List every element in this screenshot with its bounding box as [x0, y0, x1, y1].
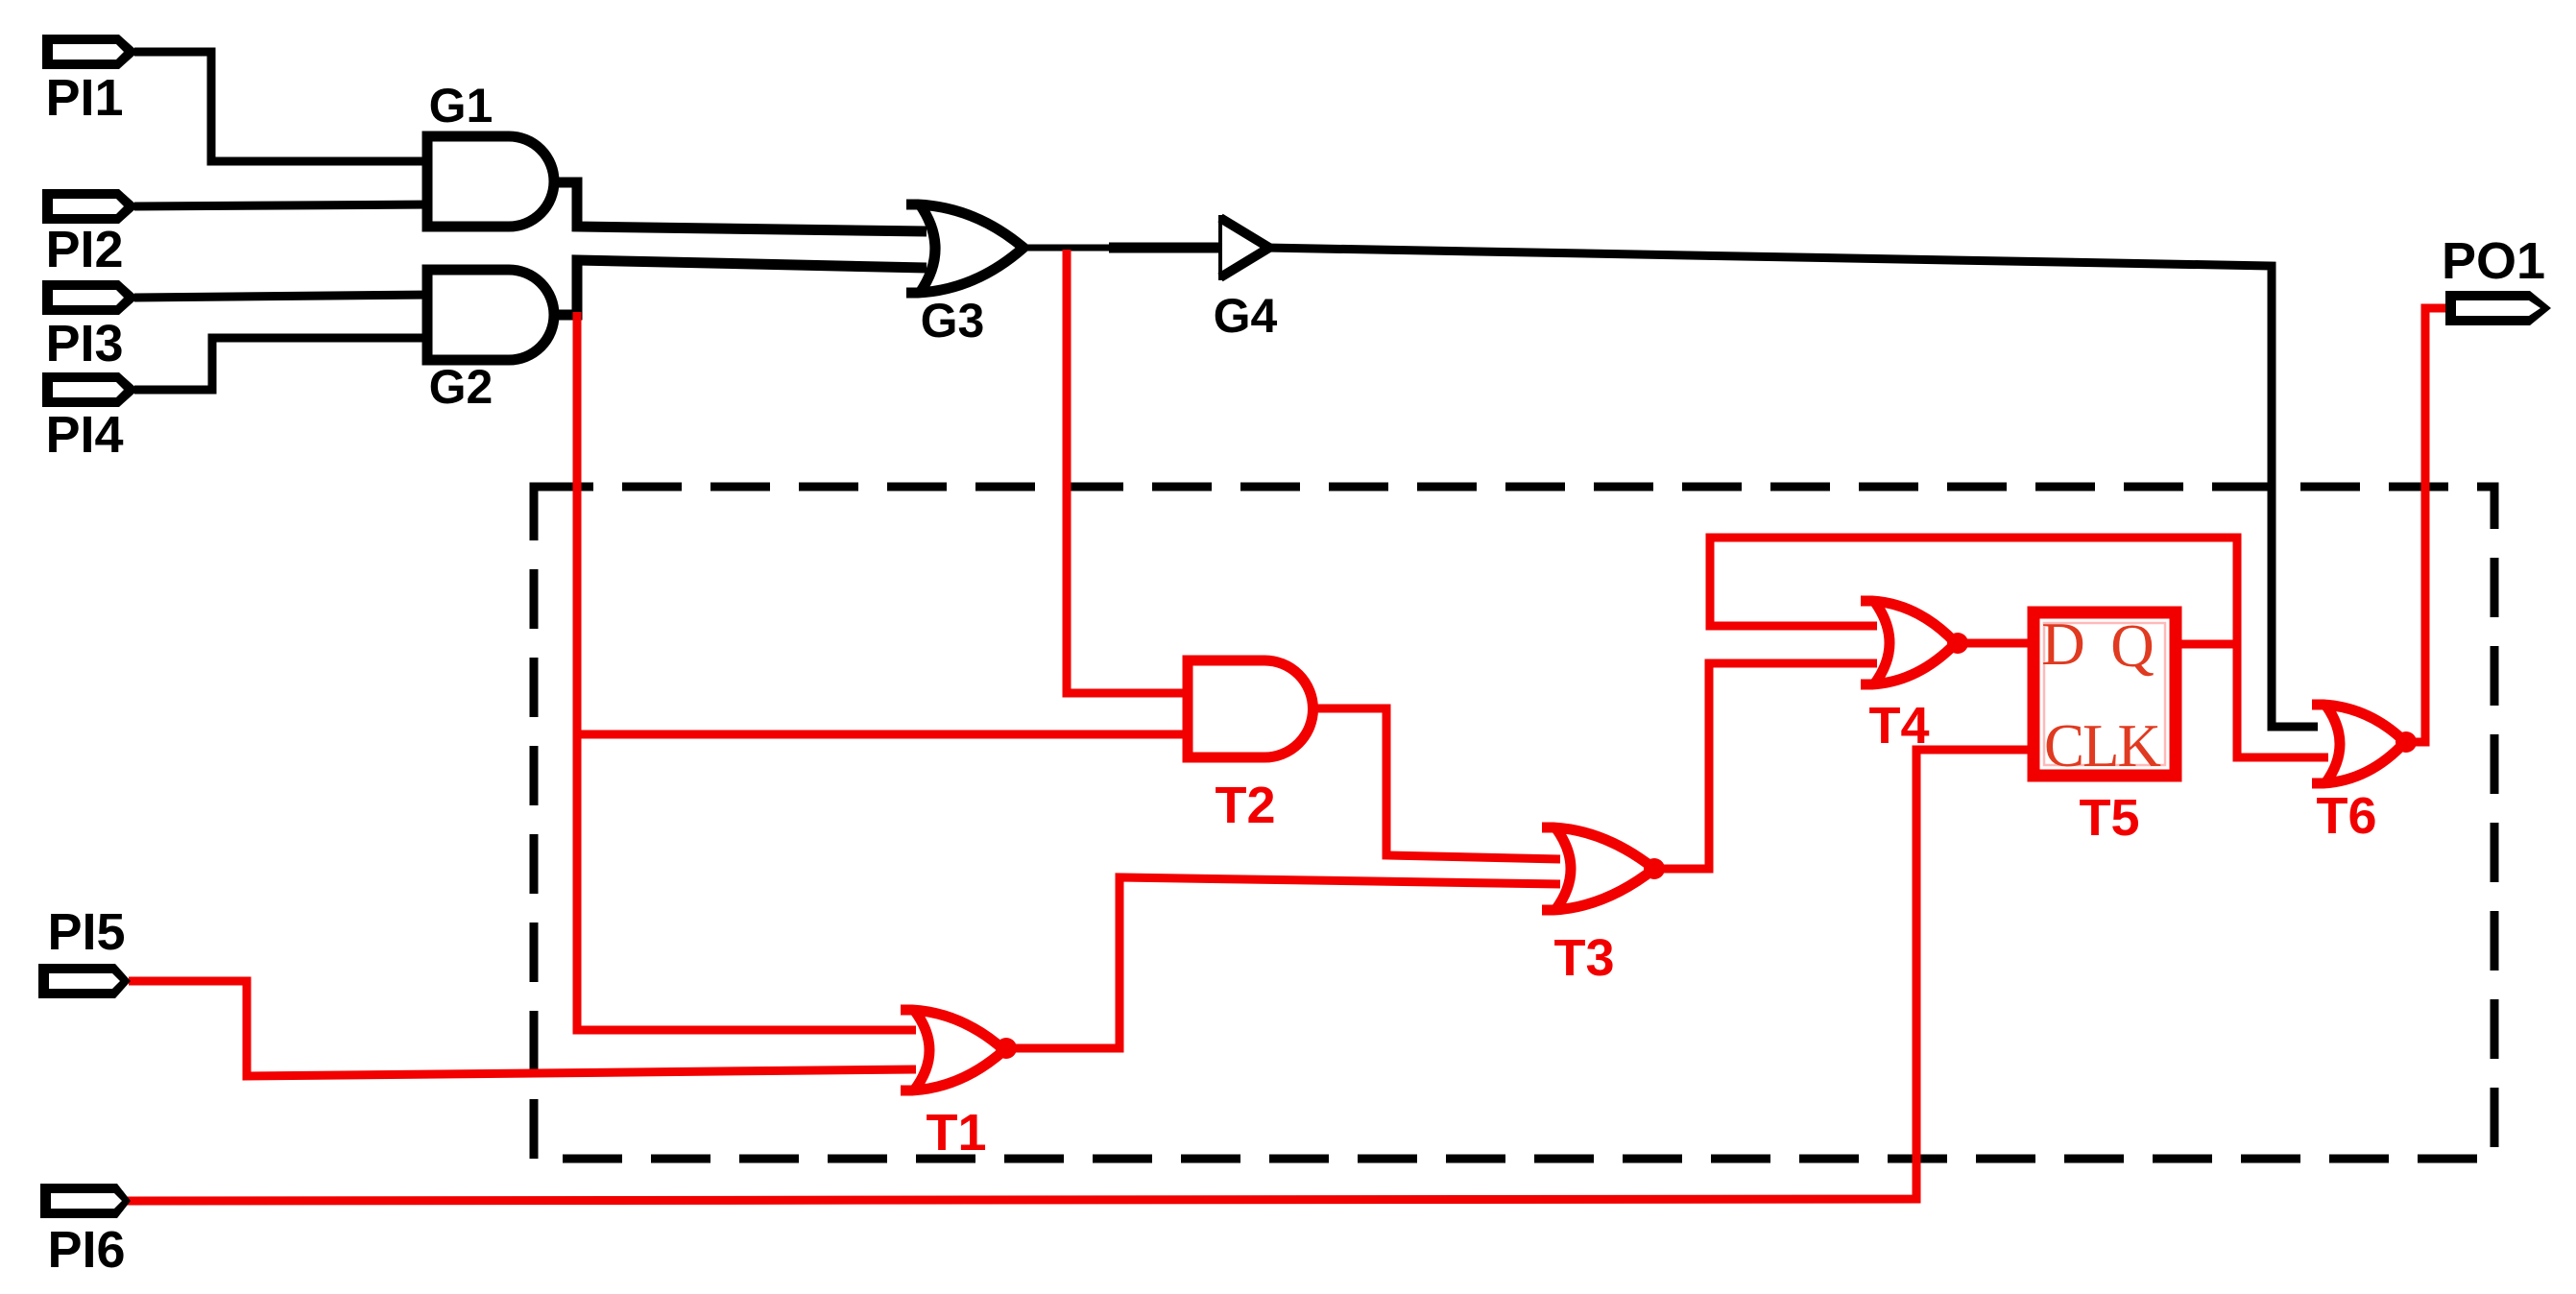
- wire PI5 to T1 input B: [129, 981, 916, 1076]
- svg-text:T3: T3: [1553, 929, 1614, 987]
- label G1: [429, 79, 494, 132]
- svg-text:Q: Q: [2110, 612, 2155, 680]
- wire G3 output red branch to T2 input A: [1067, 250, 1195, 693]
- svg-text:PI5: PI5: [47, 903, 125, 961]
- label PI5: [47, 903, 125, 961]
- label PO1: [2442, 232, 2545, 290]
- svg-text:T4: T4: [1868, 697, 1929, 755]
- wire G2 output red branch down to T1 input A: [577, 312, 916, 1030]
- wire T4 output to T5 D input: [1957, 643, 2035, 644]
- label G2: [429, 360, 494, 414]
- wire T3 output to T4 input B: [1653, 663, 1877, 869]
- label PI4: [45, 406, 123, 464]
- input pin PI6: [40, 1184, 131, 1218]
- wire T5 Q feedback to T4 input A: [1710, 538, 2237, 644]
- svg-text:CLK: CLK: [2044, 712, 2161, 779]
- label PI2: [45, 221, 123, 278]
- wire G2 output to G3 input B: [547, 260, 927, 315]
- wire T6 output to PO1: [2405, 308, 2449, 742]
- svg-text:G2: G2: [429, 360, 494, 414]
- junction dot T4 output: [1947, 633, 1968, 654]
- wire PI6 to T5 CLK input: [125, 750, 2035, 1201]
- junction dot T6 output: [2395, 731, 2417, 753]
- label PI3: [45, 315, 123, 372]
- wire PI3 to G2 input A: [134, 295, 432, 298]
- label T4: [1868, 697, 1929, 755]
- wire G4 output to T6 input A: [1265, 248, 2318, 727]
- wire red branch to T2 input B: [573, 731, 1195, 739]
- D flip-flop T5: [2034, 611, 2176, 779]
- label T6: [2316, 787, 2376, 845]
- label G3: [921, 294, 985, 347]
- input pin PI3: [42, 280, 138, 315]
- label T2: [1215, 777, 1275, 834]
- svg-text:T5: T5: [2079, 789, 2139, 847]
- AND gate G1: [427, 136, 554, 227]
- wire Q junction down to T6 input B: [2237, 640, 2328, 757]
- wire PI1 to G1 input A: [134, 52, 432, 161]
- svg-text:PI4: PI4: [45, 406, 123, 464]
- svg-text:PI2: PI2: [45, 221, 123, 278]
- input pin PI5: [38, 964, 131, 998]
- AND gate G2: [427, 270, 554, 360]
- junction dot T1 output: [996, 1038, 1017, 1059]
- label PI6: [47, 1221, 125, 1279]
- wire T1 output to T3 input B: [1004, 877, 1560, 1048]
- wire PI2 to G1 input B: [134, 204, 432, 206]
- label G4: [1214, 289, 1278, 343]
- svg-text:G1: G1: [429, 79, 494, 132]
- label T3: [1553, 929, 1614, 987]
- label PI1: [45, 69, 123, 127]
- OR gate G3: [906, 204, 1023, 293]
- output pin PO1: [2445, 291, 2551, 325]
- OR gate T1: [901, 1010, 1004, 1090]
- svg-text:PI6: PI6: [47, 1221, 125, 1279]
- label T5: [2079, 789, 2139, 847]
- label T1: [926, 1104, 986, 1162]
- svg-text:PO1: PO1: [2442, 232, 2545, 290]
- svg-text:T6: T6: [2316, 787, 2376, 845]
- dashed region boundary box: [534, 487, 2494, 1159]
- OR gate T3: [1542, 827, 1654, 910]
- input pin PI4: [42, 372, 138, 407]
- buffer G4: [1220, 215, 1269, 280]
- svg-text:G3: G3: [921, 294, 985, 347]
- AND gate T2: [1188, 660, 1313, 757]
- wire PI4 to G2 input B: [134, 338, 432, 390]
- junction dot T3 output: [1644, 858, 1665, 879]
- wire T2 output to T3 input A: [1308, 708, 1560, 859]
- OR gate T6: [2312, 705, 2405, 783]
- svg-text:T2: T2: [1215, 777, 1275, 834]
- svg-text:G4: G4: [1214, 289, 1278, 343]
- svg-text:D: D: [2041, 611, 2085, 678]
- input pin PI1: [42, 35, 138, 69]
- svg-text:PI3: PI3: [45, 315, 123, 372]
- svg-text:PI1: PI1: [45, 69, 123, 127]
- wire G1 output to G3 input A: [547, 182, 927, 231]
- svg-text:T1: T1: [926, 1104, 986, 1162]
- wire G3 output to G4 input: [1018, 245, 1224, 252]
- input pin PI2: [42, 189, 138, 224]
- OR gate T4: [1861, 601, 1956, 684]
